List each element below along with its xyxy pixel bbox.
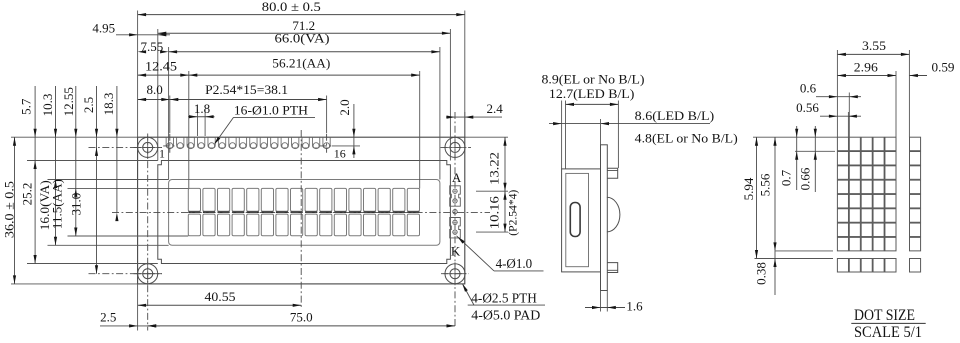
svg-text:A: A xyxy=(452,170,462,185)
svg-text:4.8(EL or No B/L): 4.8(EL or No B/L) xyxy=(635,131,738,146)
svg-text:8.9(EL or No B/L): 8.9(EL or No B/L) xyxy=(542,72,645,87)
dimension 1.6 PCB thickness xyxy=(600,291,602,312)
dimension 75.0 xyxy=(148,325,455,327)
pin 1 pad xyxy=(166,137,173,148)
pin 3 pad xyxy=(187,137,194,148)
dimension 10.16 (P2.54*4) xyxy=(504,191,506,232)
side view rubber connector xyxy=(570,203,580,237)
pin 10 pad xyxy=(260,137,267,148)
mounting hole top-left pad 5.0 / hole 2.5 xyxy=(138,137,158,157)
svg-text:(P2.54*4): (P2.54*4) xyxy=(507,190,519,236)
pin 16 crosshair centerline xyxy=(320,145,333,147)
svg-text:10.16: 10.16 xyxy=(487,196,502,230)
character cell matrix 16x2 xyxy=(188,188,419,235)
pin 2 pad xyxy=(177,137,184,148)
svg-text:1.8: 1.8 xyxy=(194,101,210,116)
dimension 40.55 xyxy=(138,304,302,306)
svg-text:4-Ø1.0: 4-Ø1.0 xyxy=(496,257,532,272)
dimension 0.56 dot width xyxy=(847,112,849,137)
cursor row of dots xyxy=(837,259,920,273)
dimension 8.6/4.8 front thickness xyxy=(549,123,710,125)
dimension 10.3 / 16.0(VA) column xyxy=(55,86,57,245)
dimension 2.96 char width xyxy=(837,75,896,77)
leader 4-diam1.0 backlight holes xyxy=(457,236,495,271)
cursor-line dark bars under top row cells xyxy=(188,211,419,213)
mounting hole top-right pad 5.0 / hole 2.5 xyxy=(445,137,465,157)
dimension 0.7 dot pitch vertical xyxy=(796,126,798,190)
svg-text:8.6(LED B/L): 8.6(LED B/L) xyxy=(635,108,715,123)
svg-text:0.56: 0.56 xyxy=(796,100,819,115)
svg-text:0.6: 0.6 xyxy=(800,80,817,95)
dimension 12.45 xyxy=(138,74,189,76)
svg-text:18.3: 18.3 xyxy=(101,93,116,116)
dimension 36.0 +/- 0.5 xyxy=(14,137,16,284)
dot detail left extension lines xyxy=(753,136,837,138)
pin 7 pad xyxy=(229,137,236,148)
svg-text:1.6: 1.6 xyxy=(626,299,643,314)
dimension 56.21(AA) xyxy=(189,74,420,76)
svg-text:80.0 ± 0.5: 80.0 ± 0.5 xyxy=(262,0,321,14)
dimension 2.0 pin offset xyxy=(353,104,355,158)
svg-text:5.7: 5.7 xyxy=(18,98,33,115)
svg-text:66.0(VA): 66.0(VA) xyxy=(275,31,330,46)
svg-text:2.5: 2.5 xyxy=(100,310,116,325)
dimension 0.66 dot height xyxy=(814,126,816,192)
svg-text:11.5(AA): 11.5(AA) xyxy=(50,179,64,229)
vertical centerline of module xyxy=(300,130,302,308)
dimension 0.38 cursor gap xyxy=(774,251,776,295)
PCB outline 80x36 xyxy=(138,137,465,284)
dimension 4.95 xyxy=(116,34,170,36)
dimension 12.55 / 11.5(AA) column xyxy=(75,86,77,236)
dimension 71.2 xyxy=(158,32,451,34)
dimension 66.0(VA) xyxy=(169,51,440,53)
svg-text:4-Ø2.5 PTH: 4-Ø2.5 PTH xyxy=(471,291,537,306)
dimension 1.8 pin pad width xyxy=(197,110,199,137)
svg-text:25.2: 25.2 xyxy=(20,183,35,206)
pin 14 pad xyxy=(302,137,309,148)
dimension 7.55 xyxy=(138,50,147,53)
side view bezel outline xyxy=(562,169,601,272)
right extension lines xyxy=(465,136,508,138)
svg-text:2.96: 2.96 xyxy=(854,60,879,75)
pin 16 pad xyxy=(323,137,330,148)
side view PCB 1.6 thick xyxy=(601,145,608,291)
center hole between backlight pads xyxy=(453,209,457,213)
svg-text:P2.54*15=38.1: P2.54*15=38.1 xyxy=(205,82,288,97)
dimension 0.6 dot pitch xyxy=(848,93,850,138)
leader 4-diam2.5 PTH / 4-diam5.0 PAD xyxy=(463,285,474,306)
pin 6 pad xyxy=(218,137,225,148)
mounting hole bottom-right pad 5.0 / hole 2.5 xyxy=(445,264,465,284)
mounting hole bottom-left pad 5.0 / hole 2.5 xyxy=(138,264,158,284)
pin 11 pad xyxy=(271,137,278,148)
separated dot column (adjacent character) xyxy=(910,137,921,251)
dimension 0.59 gap xyxy=(909,75,927,77)
pin 8 pad xyxy=(239,137,246,148)
dimension 2.5 / 31.0 column xyxy=(96,86,98,274)
side view top bezel tab xyxy=(607,168,617,178)
svg-text:2.0: 2.0 xyxy=(337,99,352,115)
svg-text:5.94: 5.94 xyxy=(741,177,756,200)
svg-text:0.66: 0.66 xyxy=(798,167,813,190)
pin 4 pad xyxy=(198,137,205,148)
dimension 8.0 xyxy=(138,99,170,101)
svg-text:10.3: 10.3 xyxy=(40,94,55,117)
pin 9 pad xyxy=(250,137,257,148)
horizontal centerline of module xyxy=(112,212,490,214)
side view dimensions xyxy=(561,101,563,169)
left extension lines xyxy=(11,136,138,138)
side view bottom bezel tab xyxy=(607,263,617,273)
dimension 80.0 +/- 0.5 xyxy=(138,14,465,16)
dimension 13.22 xyxy=(504,137,506,191)
svg-text:4.95: 4.95 xyxy=(92,20,115,35)
pin 5 pad xyxy=(208,137,215,148)
metal bezel frame outline xyxy=(158,161,451,264)
dimension 5.7 / 25.2 column xyxy=(34,86,36,264)
dot size detail 5x8 matrix xyxy=(837,137,896,251)
svg-text:DOT SIZE: DOT SIZE xyxy=(854,307,915,324)
svg-text:SCALE 5/1: SCALE 5/1 xyxy=(854,324,922,338)
svg-text:7.55: 7.55 xyxy=(141,39,164,54)
svg-text:16: 16 xyxy=(334,146,346,160)
svg-text:56.21(AA): 56.21(AA) xyxy=(272,55,330,70)
svg-text:5.56: 5.56 xyxy=(758,173,773,196)
dimension 2.5 bottom xyxy=(100,325,160,327)
side view xyxy=(562,145,620,291)
side view epoxy blob arc xyxy=(607,197,620,232)
pin 12 pad xyxy=(281,137,288,148)
svg-text:8.0: 8.0 xyxy=(146,82,162,97)
svg-text:2.5: 2.5 xyxy=(81,97,96,113)
svg-text:40.55: 40.55 xyxy=(205,289,236,304)
svg-text:0.7: 0.7 xyxy=(778,169,793,186)
svg-text:75.0: 75.0 xyxy=(290,310,313,325)
svg-text:13.22: 13.22 xyxy=(487,152,502,185)
bottom extension lines xyxy=(137,284,139,331)
backlight pad group K (cathode) xyxy=(450,218,461,238)
dimension 3.55 char pitch xyxy=(837,53,909,55)
backlight pad group A (anode) xyxy=(450,186,461,206)
svg-text:12.7(LED B/L): 12.7(LED B/L) xyxy=(549,86,635,101)
svg-text:1: 1 xyxy=(159,147,165,161)
dimension 18.3 column xyxy=(116,86,118,213)
svg-text:K: K xyxy=(451,244,461,259)
svg-text:0.38: 0.38 xyxy=(754,262,769,285)
dot detail dimensions top xyxy=(836,50,838,137)
svg-text:12.45: 12.45 xyxy=(145,59,177,74)
pin 13 pad xyxy=(292,137,299,148)
dimension 2.4 hole to edge xyxy=(446,116,502,118)
svg-text:2.4: 2.4 xyxy=(486,101,503,116)
front view of LCD module xyxy=(138,137,465,284)
dimension 5.56 xyxy=(774,137,776,251)
pin 15 pad xyxy=(312,137,319,148)
svg-text:12.55: 12.55 xyxy=(61,87,76,116)
svg-text:0.59: 0.59 xyxy=(932,60,955,75)
display window VA 66x16 xyxy=(169,180,440,246)
svg-text:16-Ø1.0 PTH: 16-Ø1.0 PTH xyxy=(234,103,308,118)
extension lines top xyxy=(137,11,139,138)
svg-text:36.0 ± 0.5: 36.0 ± 0.5 xyxy=(2,181,17,238)
svg-text:3.55: 3.55 xyxy=(862,38,886,53)
dimension 12.7/8.9 total thickness xyxy=(566,103,619,105)
mounting hole centerlines xyxy=(134,146,163,148)
dimension 5.94 xyxy=(756,137,758,258)
dimension P2.54*15=38.1 xyxy=(170,99,327,101)
side view bezel inner lip xyxy=(566,173,589,266)
svg-text:4-Ø5.0 PAD: 4-Ø5.0 PAD xyxy=(471,308,540,323)
pin 1 crosshair centerline xyxy=(163,145,176,147)
svg-text:31.0: 31.0 xyxy=(68,193,83,216)
